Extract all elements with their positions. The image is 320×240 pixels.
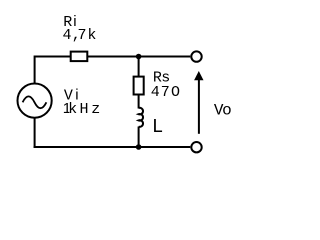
wire branch vertical upper (138, 57, 140, 109)
svg-text:1kHz: 1kHz (63, 100, 100, 118)
inductor L coil (139, 108, 143, 127)
wire bottom horizontal (34, 146, 191, 148)
arrow Vo head (194, 71, 203, 80)
wire top horizontal (35, 56, 191, 58)
svg-text:4,7k: 4,7k (63, 26, 97, 44)
AC voltage source Vi (17, 84, 51, 118)
sine wave inside source (23, 96, 47, 108)
wire left vertical (34, 56, 36, 149)
svg-text:Vo: Vo (214, 102, 232, 120)
output terminal top (191, 51, 201, 61)
output terminal bottom (191, 142, 201, 152)
arrow Vo stem (198, 80, 200, 134)
resistor Ri (71, 52, 88, 62)
wire branch vertical lower (138, 127, 140, 148)
svg-text:L: L (152, 116, 163, 138)
resistor Rs (134, 77, 144, 95)
svg-text:47O: 47O (151, 84, 180, 101)
node junction bottom (Rs branch / bottom wire) (136, 144, 142, 150)
node junction top (Rs branch / top wire) (136, 54, 142, 60)
